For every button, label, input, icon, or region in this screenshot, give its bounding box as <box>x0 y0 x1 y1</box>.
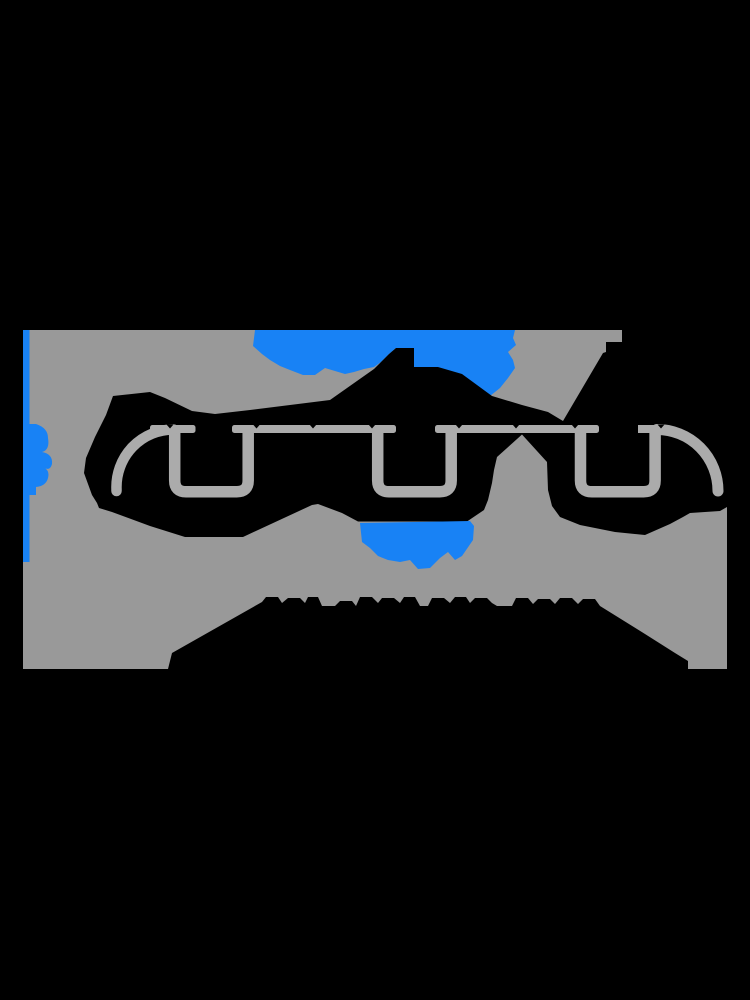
profile channel U1 <box>175 429 249 492</box>
dimension extension line left (blue vertical) <box>23 330 30 562</box>
profile top wall segment 2 <box>232 425 396 433</box>
black mass (central irregular region around profile) <box>84 330 727 537</box>
wall serration nick (ch3 left) <box>572 425 579 429</box>
wall serration nick (midspan 2) <box>513 425 520 429</box>
dimension label bottom (blue "104" blob) <box>360 521 474 569</box>
profile channel U2 <box>378 429 452 492</box>
profile top wall segment 4 <box>638 425 662 433</box>
drawing band background <box>23 330 727 669</box>
designation text band (black trapezoid with text bumps) <box>168 597 688 669</box>
dimension region top (big blue blob with text scallops) <box>253 330 516 396</box>
dimension label left (blue "3" blob) <box>29 424 52 495</box>
wall serration nick (ch2 right) <box>456 425 463 429</box>
profile right end (corner arc) <box>657 430 718 492</box>
profile channel U3 <box>581 429 656 492</box>
profile top wall segment 3 <box>435 425 599 433</box>
wall serration nick (ch1 right) <box>253 425 260 429</box>
wall serration nick (ch2 left) <box>369 425 376 429</box>
wall serration nick (ch1 left) <box>167 425 174 429</box>
wall serration nick (midspan 1) <box>310 425 317 429</box>
wall serration nick (ch3 right) <box>658 425 665 429</box>
profile top wall segment 1 <box>150 425 196 433</box>
profile left end hook (arc + vertical) <box>116 429 173 491</box>
